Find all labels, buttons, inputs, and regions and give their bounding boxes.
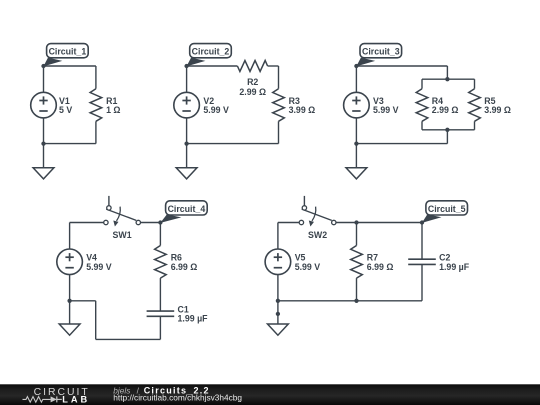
svg-text:1.99 µF: 1.99 µF <box>178 314 209 324</box>
svg-text:Circuit_4: Circuit_4 <box>168 204 206 214</box>
svg-text:2.99 Ω: 2.99 Ω <box>432 105 459 115</box>
svg-text:SW2: SW2 <box>308 230 327 240</box>
svg-text:6.99 Ω: 6.99 Ω <box>367 262 394 272</box>
svg-text:5.99 V: 5.99 V <box>203 105 229 115</box>
svg-text:Circuit_1: Circuit_1 <box>49 47 87 57</box>
svg-text:2.99 Ω: 2.99 Ω <box>239 87 266 97</box>
svg-text:SW1: SW1 <box>113 230 132 240</box>
svg-text:LAB: LAB <box>62 394 90 404</box>
svg-text:3.99 Ω: 3.99 Ω <box>484 105 511 115</box>
svg-text:R2: R2 <box>247 77 258 87</box>
svg-text:6.99 Ω: 6.99 Ω <box>171 262 198 272</box>
svg-text:Circuit_3: Circuit_3 <box>362 47 400 57</box>
svg-text:5.99 V: 5.99 V <box>86 262 112 272</box>
svg-text:5.99 V: 5.99 V <box>295 262 321 272</box>
svg-text:5 V: 5 V <box>59 105 72 115</box>
svg-text:5.99 V: 5.99 V <box>373 105 399 115</box>
svg-text:1 Ω: 1 Ω <box>106 105 120 115</box>
svg-text:Circuit_5: Circuit_5 <box>428 204 466 214</box>
svg-text:1.99 µF: 1.99 µF <box>439 262 470 272</box>
svg-text:http://circuitlab.com/chkhjsv3: http://circuitlab.com/chkhjsv3h4cbg <box>113 392 242 402</box>
svg-text:3.99 Ω: 3.99 Ω <box>289 105 316 115</box>
svg-text:Circuit_2: Circuit_2 <box>192 47 230 57</box>
